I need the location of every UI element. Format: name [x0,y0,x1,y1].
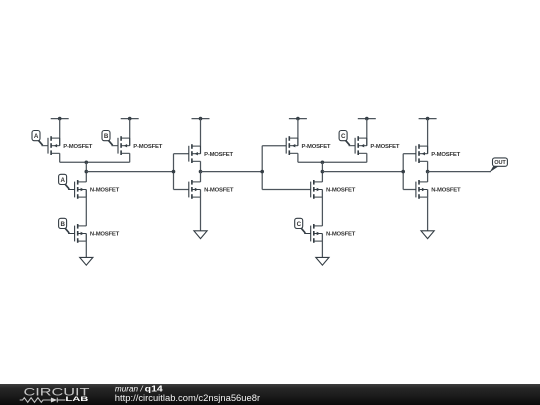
power rail VDD3 (VDD stub) [192,117,210,121]
wire M1 drain down [59,153,61,162]
svg-text:LAB: LAB [65,396,89,403]
power rail VDD5 (VDD stub) [358,117,376,121]
logo diode [51,398,57,403]
wire inv1 gate stub bottom [174,189,189,191]
svg-text:muran /: muran / [115,384,143,393]
junction J2 [85,170,89,174]
wire M10 source to ground [321,234,323,258]
svg-text:A: A [60,177,65,184]
svg-text:P-MOSFET: P-MOSFET [133,144,162,150]
transistor M9 (N-MOSFET) [311,180,356,199]
node A1 (input flag A) [32,131,48,146]
wire nand2 gate stub top [262,145,286,147]
wire inv2 gate bus [402,154,404,190]
wire M8 drain down [366,153,368,162]
node B1 (input flag B) [102,131,118,146]
power rail VDD6 (VDD stub) [419,117,437,121]
junction J7 [321,170,325,174]
svg-text:N-MOSFET: N-MOSFET [431,188,461,194]
wire VDD5 to M8 source [366,119,368,146]
transistor M6 (N-MOSFET) [189,180,234,199]
svg-text:B: B [60,221,65,228]
svg-text:OUT: OUT [494,160,506,166]
svg-text:N-MOSFET: N-MOSFET [326,188,356,194]
svg-text:N-MOSFET: N-MOSFET [90,188,120,194]
wire M11 drain down [427,161,429,171]
transistor M11 (P-MOSFET) [416,144,461,163]
footer bar [0,384,540,405]
power rail VDD4 (VDD stub) [289,117,307,121]
junction J6 [321,161,325,165]
node C1 (input flag C) [339,131,355,146]
junction J4 [199,170,203,174]
wire inv2 gate stub top [403,153,416,155]
wire node1 vertical [85,162,87,182]
svg-text:P-MOSFET: P-MOSFET [370,144,399,150]
wire stage1 out to inv1 bus [86,171,173,173]
transistor M3 (N-MOSFET) [75,180,120,199]
junction J8 [401,170,405,174]
wire node2 vertical [321,162,323,182]
wire M3 source to M4 drain [85,190,87,226]
svg-text:P-MOSFET: P-MOSFET [63,144,92,150]
wire M6 drain up [200,172,202,182]
wire M2 drain down [129,153,131,162]
transistor M5 (P-MOSFET) [189,144,234,163]
transistor M10 (N-MOSFET) [311,224,356,243]
svg-text:A: A [34,133,39,140]
junction J9 [426,170,430,174]
ground GND2 [194,231,207,239]
transistor M8 (P-MOSFET) [355,136,400,155]
wire inv1 gate stub top [174,153,189,155]
svg-text:q14: q14 [145,384,164,393]
svg-text:N-MOSFET: N-MOSFET [326,232,356,238]
wire nand2 gate bus [261,146,263,190]
wire M9 source to M10 drain [321,190,323,226]
wire VDD4 to M7 source [297,119,299,146]
power rail VDD2 (VDD stub) [121,117,139,121]
wire inv1 gate bus [173,154,175,190]
svg-text:B: B [104,133,109,140]
power rail VDD1 (VDD stub) [51,117,69,121]
wire stage1 drain bus [60,161,130,163]
wire nand2 gate stub bottom [262,189,311,191]
wire M12 drain up [427,172,429,182]
transistor M1 (P-MOSFET) [48,136,93,155]
wire M5 drain down [200,161,202,171]
node B2 (input flag B) [59,218,75,233]
transistor M12 (N-MOSFET) [416,180,461,199]
transistor M7 (P-MOSFET) [286,136,331,155]
junction J5 [260,170,264,174]
svg-text:N-MOSFET: N-MOSFET [204,188,234,194]
ground GND1 [80,257,93,265]
svg-text:P-MOSFET: P-MOSFET [204,152,233,158]
wire M7 drain down [297,153,299,162]
transistor M2 (P-MOSFET) [118,136,163,155]
svg-text:P-MOSFET: P-MOSFET [431,152,460,158]
wire inv2 gate stub bottom [403,189,416,191]
svg-text:http://circuitlab.com/c2nsjna5: http://circuitlab.com/c2nsjna56ue8r [115,393,260,403]
wire M12 source to ground [427,190,429,231]
wire stage2 drain bus [298,161,367,163]
wire VDD1 to M1 source [59,119,61,146]
ground GND3 [316,257,329,265]
wire inv1 out to nand2 bus [201,171,263,173]
node A2 (input flag A) [59,174,75,189]
wire VDD3 to M5 source [200,119,202,154]
wire inv2 out to OUT flag [428,171,491,173]
wire VDD2 to M2 source [129,119,131,146]
wire stage2 out to inv2 bus [322,171,403,173]
ground GND4 [421,231,434,239]
svg-text:C: C [341,133,346,140]
logo resistor-diode squiggle [20,398,66,403]
svg-text:N-MOSFET: N-MOSFET [90,232,120,238]
svg-text:P-MOSFET: P-MOSFET [302,144,331,150]
wire M4 source to ground [85,234,87,258]
node OUT (output flag) [490,158,508,172]
wire M6 source to ground [200,190,202,231]
node C2 (input flag C) [295,218,311,233]
footer contents [0,384,540,405]
svg-text:C: C [297,221,302,228]
wire VDD6 to M11 source [427,119,429,154]
junction J3 [172,170,176,174]
junction J1 [85,161,89,165]
transistor M4 (N-MOSFET) [75,224,120,243]
